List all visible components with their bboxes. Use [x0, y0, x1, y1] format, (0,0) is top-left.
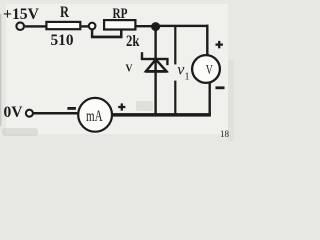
- svg-text:2k: 2k: [126, 33, 140, 50]
- wire junction down to zener cathode: [154, 27, 156, 58]
- wire terminal to R: [25, 25, 46, 27]
- voltmeter - polarity: [216, 86, 225, 89]
- ammeter - polarity: [67, 107, 76, 110]
- svg-text:mA: mA: [86, 108, 103, 125]
- terminal 0V: [26, 110, 33, 117]
- svg-text:RP: RP: [113, 6, 128, 22]
- svg-text:V: V: [206, 62, 213, 77]
- scan artifact: left page edge line: [0, 14, 1, 126]
- zener base bar: [145, 70, 167, 72]
- wire 0V terminal to ammeter: [34, 112, 79, 115]
- resistor R: [46, 22, 80, 29]
- zener diode VZ: cathode bar: [141, 58, 169, 60]
- v1 annotation line upper segment: [174, 25, 176, 64]
- wire R to pot tap node: [81, 25, 88, 27]
- wire RP to junction: [135, 25, 155, 27]
- paper background: [0, 0, 234, 141]
- wire corner down to voltmeter top: [206, 25, 208, 55]
- svg-text:R: R: [60, 4, 69, 21]
- zener left bent tip (up): [141, 52, 143, 59]
- bottom rail wire: [112, 113, 211, 117]
- wire wiper loop: up into RP bottom: [120, 30, 123, 37]
- svg-text:0V: 0V: [4, 104, 23, 121]
- terminal +15V: [16, 22, 24, 30]
- wire wiper loop: horizontal under RP: [91, 36, 123, 39]
- svg-text:18: 18: [220, 129, 230, 139]
- wire top rail junction to corner: [156, 25, 209, 27]
- voltmeter + polarity: [216, 41, 223, 48]
- ammeter mA circle: [78, 98, 112, 132]
- v1 annotation line lower segment: [174, 81, 176, 116]
- svg-text:+15V: +15V: [3, 6, 39, 23]
- voltmeter V circle: [192, 55, 220, 83]
- wire wiper loop: down from tap node: [91, 29, 93, 38]
- scan artifact: bleed-through smudge bottom-left: [2, 128, 38, 136]
- zener triangle (anode, pointing up): [146, 59, 166, 71]
- zener right bent tip (down): [166, 60, 168, 66]
- svg-text:V: V: [126, 64, 133, 75]
- svg-text:1: 1: [185, 72, 190, 83]
- junction node (solder dot): [151, 22, 160, 31]
- scan artifact: bleed-through smudge under diode: [136, 101, 153, 111]
- potentiometer RP body: [104, 20, 135, 29]
- wire zener anode down to bottom rail: [154, 60, 156, 115]
- svg-text:510: 510: [51, 32, 74, 49]
- ammeter + polarity: [118, 103, 125, 110]
- wire voltmeter bottom to rail: [209, 83, 211, 116]
- node pot tap (open circle): [89, 23, 96, 30]
